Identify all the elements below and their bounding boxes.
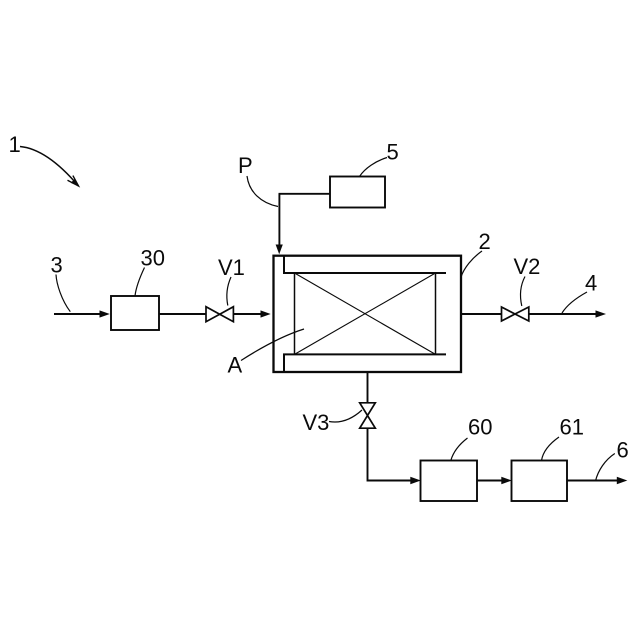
membrane element A diagonal 2	[295, 273, 436, 354]
wire box 60 to box 61	[477, 480, 502, 482]
arrowhead outlet 6	[617, 477, 628, 485]
svg-text:1: 1	[9, 132, 21, 157]
leader for P	[247, 176, 278, 207]
leader for 2	[461, 251, 482, 277]
vessel 2 bottom bracket	[284, 354, 446, 371]
valve V1	[206, 307, 220, 322]
membrane element A right edge	[435, 273, 437, 354]
arrowhead into box 61	[501, 477, 512, 485]
vessel 2 outer shell	[274, 256, 462, 372]
box 61	[512, 461, 568, 502]
leader for 30	[135, 268, 145, 297]
svg-text:P: P	[238, 153, 253, 178]
wire valve V2 to outlet 4	[529, 313, 596, 315]
leader for 6	[596, 454, 615, 482]
valve V3	[360, 403, 376, 416]
box 60	[421, 461, 478, 502]
svg-text:30: 30	[141, 246, 165, 271]
leader for 3	[56, 275, 70, 312]
arrowhead outlet 4	[596, 310, 607, 317]
wire box 61 to outlet 6	[567, 480, 617, 482]
wire vessel 2 bottom to valve V3	[367, 373, 369, 404]
wire feed line 3 to box 30	[54, 313, 100, 315]
svg-text:5: 5	[387, 140, 399, 165]
curved arrow from label 1	[20, 147, 79, 187]
leader for V2	[520, 277, 525, 307]
leader for A	[241, 329, 304, 361]
svg-text:V3: V3	[303, 410, 330, 435]
arrowhead into vessel 2	[261, 310, 271, 317]
arrowhead P into vessel 2	[276, 245, 283, 255]
svg-text:2: 2	[479, 229, 491, 254]
arrowhead into box 60	[410, 477, 421, 485]
leader for V1	[227, 277, 231, 306]
membrane element A left edge	[294, 273, 296, 354]
leader for 4	[562, 292, 587, 313]
svg-text:60: 60	[468, 415, 492, 440]
leader for V3	[329, 410, 362, 422]
leader for 5	[360, 158, 388, 177]
box 30	[111, 296, 159, 330]
wire purge line P vertical	[278, 194, 280, 246]
wire box 30 to valve V1	[159, 313, 206, 315]
svg-text:V1: V1	[218, 255, 245, 280]
wire vessel 2 to valve V2	[461, 313, 502, 315]
arrowhead into box 30	[100, 310, 110, 317]
svg-text:6: 6	[617, 438, 629, 463]
wire valve V1 to vessel 2	[234, 313, 263, 315]
wire P horizontal to box 5	[279, 193, 331, 195]
wire valve V3 down and right to box 60	[368, 428, 411, 480]
vessel 2 top bracket	[284, 256, 446, 273]
svg-text:61: 61	[560, 415, 584, 440]
svg-text:3: 3	[51, 253, 63, 278]
svg-text:V2: V2	[514, 254, 541, 279]
membrane element A diagonal 1	[295, 273, 436, 354]
leader for 61	[542, 437, 560, 461]
svg-text:A: A	[228, 353, 243, 378]
leader for 60	[451, 438, 468, 461]
box 5	[330, 177, 385, 208]
valve V2	[502, 307, 516, 321]
